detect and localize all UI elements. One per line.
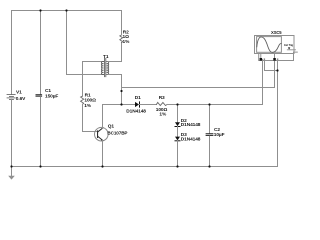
wire D2 branch top	[177, 105, 179, 123]
wire scope B ground	[277, 60, 279, 166]
svg-text:BC107BP: BC107BP	[107, 131, 127, 136]
svg-text:D1: D1	[135, 95, 141, 101]
svg-text:Ext Trig: Ext Trig	[284, 43, 293, 47]
svg-text:C1: C1	[45, 88, 51, 94]
wire output row left	[103, 104, 136, 106]
svg-text:D1N4148: D1N4148	[181, 122, 201, 128]
svg-text:R1: R1	[85, 92, 91, 98]
wire primary-top branch	[83, 62, 104, 97]
wire D2 to D3	[177, 127, 179, 137]
diode D2	[175, 122, 180, 126]
terminal A-	[264, 58, 265, 60]
wire left rail upper	[11, 11, 13, 95]
node top rail primary	[65, 9, 67, 11]
wire primary-bottom branch	[67, 11, 104, 75]
scope sine wave	[257, 37, 281, 53]
node row D2	[176, 103, 178, 105]
svg-text:XSC5: XSC5	[271, 30, 282, 35]
node bottom rail C2	[208, 165, 210, 167]
wire secondary bottom	[109, 75, 122, 105]
node bottom rail D3	[176, 165, 178, 167]
svg-text:D1N4148: D1N4148	[126, 108, 146, 114]
svg-text:0.6V: 0.6V	[16, 96, 26, 102]
node bottom rail V1	[10, 165, 12, 167]
T1 right winding	[107, 62, 109, 75]
wire output row right	[167, 60, 263, 105]
wire top rail	[12, 10, 122, 12]
diode D3	[175, 137, 180, 141]
svg-text:150µF: 150µF	[45, 94, 58, 100]
node bottom rail emitter	[101, 165, 103, 167]
wire scope B feed	[122, 61, 275, 88]
ground	[8, 167, 15, 180]
svg-text:1%: 1%	[84, 103, 92, 109]
scope terminal stubs	[260, 54, 262, 59]
svg-text:T1: T1	[103, 54, 109, 60]
svg-text:1%: 1%	[123, 39, 131, 45]
T1 left winding	[101, 62, 103, 75]
resistor R2	[120, 35, 123, 43]
wire scope A ground	[265, 60, 278, 70]
node secondary junction	[120, 90, 122, 92]
svg-text:10µF: 10µF	[214, 132, 225, 138]
wire D1 to R3	[140, 104, 157, 106]
svg-text:100Ω: 100Ω	[84, 98, 96, 104]
node row secondary	[120, 103, 122, 105]
wire emitter	[102, 141, 104, 167]
battery V1	[7, 94, 15, 99]
svg-text:V1: V1	[16, 90, 22, 96]
scope terminal bar	[259, 52, 298, 60]
wire bottom rail	[12, 166, 278, 168]
capacitor C1	[36, 94, 43, 97]
wire R1 to base	[83, 104, 98, 131]
terminal A+	[260, 58, 263, 61]
wire D3 to rail	[177, 141, 179, 167]
wire left rail lower	[11, 99, 13, 166]
svg-text:D1N4148: D1N4148	[181, 137, 201, 143]
resistor R1	[81, 96, 84, 104]
wire C2 branch top	[209, 105, 211, 134]
node top rail C1	[39, 9, 41, 11]
node scope ground	[276, 69, 278, 71]
T1 core	[103, 58, 105, 77]
svg-text:Q1: Q1	[108, 124, 115, 130]
transistor Q1	[95, 127, 109, 141]
ext trig terminal	[287, 47, 295, 49]
capacitor C2	[206, 133, 214, 136]
wire C1 branch lower	[40, 97, 42, 167]
transformer T1	[101, 58, 108, 77]
terminal B+	[273, 58, 276, 61]
wire scope A probe	[262, 61, 264, 105]
svg-text:1Ω: 1Ω	[123, 34, 130, 40]
wire secondary top to R2	[109, 43, 122, 62]
svg-text:1%: 1%	[159, 112, 167, 118]
oscilloscope XSC5	[255, 36, 298, 61]
wire C1 branch upper	[40, 11, 42, 95]
wire collector	[102, 105, 104, 129]
wire C2 branch bottom	[209, 136, 211, 166]
diode D1	[135, 102, 140, 107]
resistor R3	[156, 102, 167, 105]
svg-text:R3: R3	[159, 95, 165, 101]
terminal B-	[277, 58, 278, 60]
wire R2 top	[121, 11, 123, 36]
node row C2	[208, 103, 210, 105]
node bottom rail C1	[39, 165, 41, 167]
